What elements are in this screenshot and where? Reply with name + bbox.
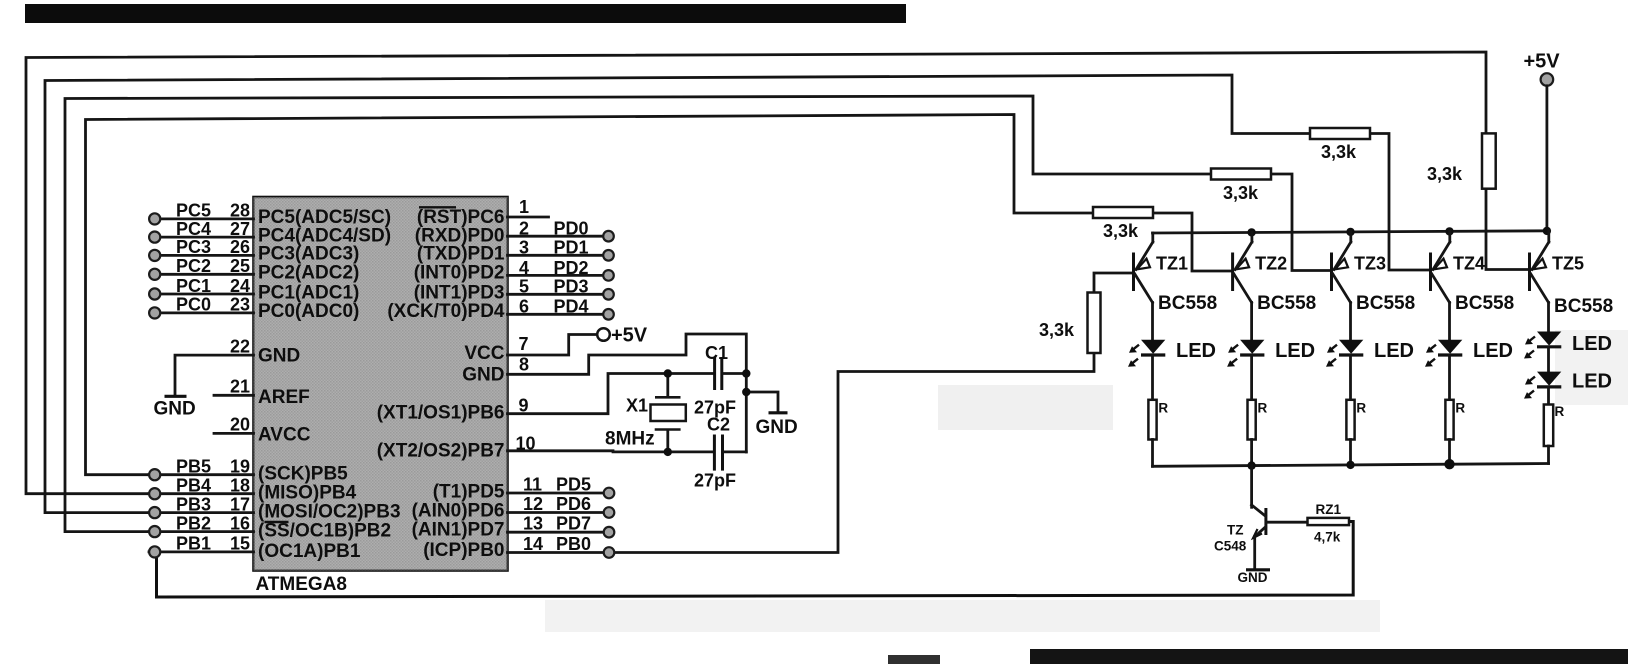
transistor TZ2 (PNP BC558)	[1233, 232, 1252, 339]
wire LED cathode to resistor	[1448, 356, 1451, 400]
svg-text:R: R	[1356, 401, 1366, 416]
pin 6 (PD4) wire + pad + labels	[508, 297, 614, 320]
transistor TZ1 (PNP BC558)	[1134, 233, 1153, 340]
resistor R (TZ4 column)	[1445, 400, 1453, 440]
transistor TZ (NPN C548)	[1252, 505, 1307, 569]
+5V terminal (VCC)	[597, 325, 648, 347]
LED (TZ5 column LED1)	[1524, 332, 1561, 359]
ground symbol at pin 22	[154, 396, 196, 419]
wire resistor to collector rail	[1250, 440, 1253, 466]
svg-text:22: 22	[230, 336, 250, 356]
svg-text:C548: C548	[1214, 539, 1247, 554]
svg-text:BC558: BC558	[1356, 293, 1415, 314]
LED (TZ3 column)	[1326, 340, 1363, 367]
svg-text:PD5: PD5	[556, 475, 591, 495]
ground symbol at TZ emitter	[1238, 570, 1271, 585]
pin 23 (PC0) wire + pad + labels	[149, 295, 253, 319]
pin 1 (PC6/RST) stub and number	[508, 197, 549, 217]
svg-text:R: R	[1258, 401, 1268, 416]
pin 9 (XT1) wire to crystal rail	[508, 374, 714, 416]
wire H1 resistor out -> TZ4 base	[1370, 134, 1431, 271]
wire net PB5 -> TZ2 base loop	[86, 115, 1094, 475]
svg-text:PB5: PB5	[176, 457, 211, 477]
svg-text:PC4: PC4	[176, 219, 211, 239]
wire LED cathode to resistor	[1250, 356, 1253, 400]
svg-text:PC1(ADC1): PC1(ADC1)	[258, 282, 359, 303]
svg-text:10: 10	[516, 434, 536, 454]
svg-text:PD7: PD7	[556, 514, 591, 534]
IC U1 ATMEGA8 body	[254, 197, 508, 571]
svg-text:21: 21	[230, 377, 250, 397]
pin 7 (VCC) wire to +5V	[508, 334, 598, 355]
svg-text:R: R	[1158, 401, 1168, 416]
svg-text:+5V: +5V	[611, 325, 648, 347]
svg-text:PD4: PD4	[554, 297, 589, 317]
svg-text:8: 8	[519, 355, 529, 375]
svg-text:(AIN1)PD7: (AIN1)PD7	[412, 520, 505, 541]
svg-text:28: 28	[230, 201, 250, 221]
svg-text:16: 16	[230, 513, 250, 533]
svg-text:R: R	[1555, 404, 1565, 419]
svg-text:LED: LED	[1473, 340, 1513, 362]
svg-text:(INT0)PD2: (INT0)PD2	[414, 263, 505, 284]
svg-text:(OC1A)PB1: (OC1A)PB1	[258, 541, 361, 562]
svg-text:20: 20	[230, 415, 250, 435]
overline on SS of (SS/OC1B)PB2	[265, 521, 289, 523]
+5V supply terminal top right	[1524, 51, 1561, 86]
wire LED cathode to resistor	[1151, 356, 1154, 400]
svg-text:3,3k: 3,3k	[1321, 142, 1357, 162]
svg-text:BC558: BC558	[1455, 293, 1514, 314]
resistor R (TZ1 column)	[1148, 400, 1156, 440]
scan artifact: dark bottom-right bar	[1030, 649, 1628, 664]
svg-text:27pF: 27pF	[694, 471, 736, 491]
resistor 3,3k (TZ4 base)	[1310, 128, 1370, 139]
wire net PB0 -> 3.3k -> TZ1 base	[615, 353, 1095, 553]
svg-text:(AIN0)PD6: (AIN0)PD6	[412, 501, 505, 522]
svg-text:GND: GND	[462, 365, 504, 386]
pin 21 (AREF) stub and number	[214, 377, 254, 397]
svg-text:TZ3: TZ3	[1354, 254, 1386, 274]
wire resistor to collector rail	[1151, 440, 1154, 467]
pin 26 (PC3) wire + pad + labels	[149, 237, 253, 261]
resistor RZ1 4,7k	[1308, 518, 1350, 525]
svg-text:(XT2/OS2)PB7: (XT2/OS2)PB7	[377, 441, 505, 462]
svg-text:TZ1: TZ1	[1156, 254, 1188, 274]
svg-text:9: 9	[519, 396, 529, 416]
wire resistor to collector rail	[1349, 440, 1352, 465]
IC internal pin labels right column	[377, 207, 505, 561]
svg-text:BC558: BC558	[1158, 293, 1217, 314]
emitter rail +5V	[1153, 231, 1549, 233]
resistor R (TZ2 column)	[1248, 400, 1256, 440]
pin 24 (PC1) wire + pad + labels	[149, 276, 253, 300]
pin 20 (AVCC) stub and number	[214, 415, 254, 435]
scan artifact: small dark mark bottom centre	[888, 655, 940, 664]
svg-text:PD3: PD3	[554, 277, 589, 297]
wire rail down to TZ collector	[1250, 466, 1253, 508]
svg-text:PD0: PD0	[554, 219, 589, 239]
svg-text:TZ2: TZ2	[1255, 254, 1287, 274]
resistor 3,3k (TZ2 base)	[1093, 207, 1153, 218]
pin 28 (PC5) wire + pad + labels	[149, 201, 253, 225]
svg-text:PB0: PB0	[556, 534, 591, 554]
svg-text:PD2: PD2	[554, 258, 589, 278]
svg-text:1: 1	[519, 197, 529, 217]
svg-text:(INT1)PD3: (INT1)PD3	[414, 282, 505, 303]
svg-text:RZ1: RZ1	[1316, 502, 1342, 517]
wire net PB3 -> TZ4 base loop	[45, 75, 1310, 513]
wire net PB4 -> TZ5 base (outer loop)	[26, 52, 1486, 494]
scan artifact: dark top edge bar	[25, 4, 906, 23]
svg-text:TZ5: TZ5	[1552, 254, 1584, 274]
ground symbol near crystal	[746, 392, 797, 438]
LED (TZ4 column)	[1425, 340, 1462, 367]
svg-text:+5V: +5V	[1524, 51, 1561, 73]
capacitor C1	[715, 357, 747, 390]
wire resistor to collector rail	[1547, 446, 1550, 464]
svg-text:PB3: PB3	[176, 494, 211, 514]
svg-text:GND: GND	[258, 346, 300, 367]
transistor TZ5 (PNP BC558)	[1530, 231, 1549, 332]
wire V-left resistor top -> TZ1 base	[1094, 273, 1134, 293]
svg-text:BC558: BC558	[1554, 296, 1613, 317]
pin 10 (XT2) wire, bottom crystal rail	[508, 434, 714, 454]
svg-text:PC2(ADC2): PC2(ADC2)	[258, 263, 359, 284]
pin 14 (PB0) wire + pad + labels	[508, 534, 615, 558]
svg-text:12: 12	[523, 494, 543, 514]
ground node wire right of C1/C2	[745, 374, 748, 453]
svg-text:(XT1/OS1)PB6: (XT1/OS1)PB6	[377, 403, 505, 424]
resistor 3,3k (TZ5 base, vertical)	[1482, 133, 1496, 188]
pin 17 (PB3) wire + pad + labels	[149, 494, 254, 518]
junction bottom rail TZ3	[1346, 461, 1354, 469]
svg-text:C2: C2	[707, 415, 730, 435]
junction emitter rail	[1247, 228, 1255, 236]
LED (TZ1 column)	[1128, 340, 1165, 367]
svg-text:PB2: PB2	[176, 513, 211, 533]
svg-text:LED: LED	[1572, 333, 1612, 355]
pin 2 (PD0) wire + pad + labels	[508, 219, 614, 242]
pin 15 (PB1) wire + pad + labels	[149, 534, 254, 558]
pin 25 (PC2) wire + pad + labels	[149, 256, 253, 280]
collector bottom rail	[1153, 464, 1549, 467]
svg-text:PD6: PD6	[556, 494, 591, 514]
svg-text:(MOSI/OC2)PB3: (MOSI/OC2)PB3	[258, 502, 401, 523]
svg-text:23: 23	[230, 295, 250, 315]
capacitor C2	[714, 435, 746, 471]
pin 13 (PD7) wire + pad + labels	[508, 514, 615, 538]
wire LED2 cathode to resistor	[1547, 387, 1550, 405]
svg-text:TZ: TZ	[1227, 523, 1244, 538]
svg-text:(ICP)PB0: (ICP)PB0	[423, 540, 504, 561]
svg-text:4: 4	[519, 258, 529, 278]
svg-text:(XCK/T0)PD4: (XCK/T0)PD4	[387, 301, 505, 322]
svg-text:TZ4: TZ4	[1453, 254, 1485, 274]
svg-text:(SCK)PB5: (SCK)PB5	[258, 464, 348, 485]
wire resistor to collector rail	[1448, 440, 1451, 465]
wire net PB1 bottom loop -> RZ1	[157, 522, 1354, 598]
wire LED cathode to resistor	[1349, 356, 1352, 400]
svg-text:BC558: BC558	[1257, 293, 1316, 314]
junction emitter rail	[1445, 227, 1453, 235]
svg-text:17: 17	[230, 494, 250, 514]
svg-text:PC1: PC1	[176, 276, 211, 296]
junction emitter rail	[1346, 228, 1354, 236]
svg-text:3: 3	[519, 238, 529, 258]
svg-text:(T1)PD5: (T1)PD5	[433, 482, 505, 503]
transistor TZ4 (PNP BC558)	[1431, 231, 1450, 339]
svg-text:LED: LED	[1176, 340, 1216, 362]
wire H3 resistor out -> TZ2 base	[1153, 213, 1233, 271]
svg-text:C1: C1	[705, 343, 728, 363]
pin 8 (GND) wire to ground node	[508, 334, 747, 375]
transistor TZ3 (PNP BC558)	[1332, 232, 1351, 340]
svg-text:18: 18	[230, 476, 250, 496]
svg-text:PB4: PB4	[176, 476, 211, 496]
svg-text:3,3k: 3,3k	[1103, 221, 1139, 241]
svg-text:AREF: AREF	[258, 387, 310, 408]
junction GND branch	[742, 388, 750, 396]
svg-text:7: 7	[519, 334, 529, 354]
wire H2 resistor out -> TZ3 base	[1271, 174, 1332, 271]
LED (TZ2 column)	[1227, 340, 1264, 367]
svg-text:PC2: PC2	[176, 256, 211, 276]
svg-text:19: 19	[230, 457, 250, 477]
svg-text:27: 27	[230, 219, 250, 239]
wire V-right resistor out -> TZ5 base	[1486, 189, 1530, 270]
junction bottom rail TZ4	[1444, 459, 1454, 469]
svg-text:ATMEGA8: ATMEGA8	[256, 574, 347, 595]
svg-text:(TXD)PD1: (TXD)PD1	[417, 244, 505, 265]
svg-text:PC5: PC5	[176, 201, 211, 221]
svg-text:14: 14	[523, 534, 543, 554]
svg-text:24: 24	[230, 276, 250, 296]
svg-text:VCC: VCC	[464, 343, 504, 364]
svg-text:8MHz: 8MHz	[605, 429, 655, 450]
svg-text:PC0: PC0	[176, 295, 211, 315]
wire net PB2 -> TZ3 base loop	[65, 96, 1211, 532]
svg-text:25: 25	[230, 256, 250, 276]
pin 3 (PD1) wire + pad + labels	[508, 238, 614, 261]
svg-text:(MISO)PB4: (MISO)PB4	[258, 483, 357, 504]
svg-text:(SS/OC1B)PB2: (SS/OC1B)PB2	[258, 521, 391, 542]
svg-text:PC3(ADC3): PC3(ADC3)	[258, 244, 359, 265]
wire +5V down to emitter rail	[1546, 86, 1549, 231]
svg-text:4,7k: 4,7k	[1314, 530, 1341, 545]
wire between stacked LEDs	[1547, 347, 1550, 372]
svg-text:GND: GND	[756, 417, 798, 438]
svg-text:GND: GND	[1238, 570, 1268, 585]
svg-text:PD1: PD1	[554, 238, 589, 258]
svg-text:6: 6	[519, 297, 529, 317]
IC internal pin labels left column	[258, 207, 401, 562]
junction crystal bottom	[664, 448, 672, 456]
overline on RST of (RST)PC6	[419, 206, 456, 208]
LED (TZ5 column LED2)	[1524, 372, 1561, 399]
svg-text:13: 13	[523, 514, 543, 534]
svg-text:3,3k: 3,3k	[1427, 164, 1463, 184]
pin 4 (PD2) wire + pad + labels	[508, 258, 614, 281]
svg-text:5: 5	[519, 277, 529, 297]
scan artifact: faint gray patches	[545, 330, 1628, 632]
svg-text:PC3: PC3	[176, 237, 211, 257]
pin 27 (PC4) wire + pad + labels	[149, 219, 253, 243]
svg-text:X1: X1	[626, 396, 648, 416]
svg-text:GND: GND	[154, 399, 196, 420]
junction emitter rail	[1543, 227, 1551, 235]
svg-text:LED: LED	[1572, 371, 1612, 393]
resistor R (TZ3 column)	[1346, 400, 1354, 440]
svg-text:15: 15	[230, 534, 250, 554]
pin 16 (PB2) wire + pad + labels	[149, 513, 254, 537]
resistor R (TZ5 column)	[1544, 405, 1553, 447]
svg-text:11: 11	[523, 475, 542, 495]
pin 5 (PD3) wire + pad + labels	[508, 277, 614, 300]
svg-text:AVCC: AVCC	[258, 425, 311, 446]
pin 18 (PB4) wire + pad + labels	[149, 476, 254, 500]
crystal X1 8MHz	[651, 374, 686, 452]
svg-text:LED: LED	[1275, 340, 1315, 362]
svg-text:3,3k: 3,3k	[1039, 320, 1075, 340]
junction bottom rail TZ2	[1247, 461, 1255, 469]
svg-text:3,3k: 3,3k	[1223, 183, 1259, 203]
pin 11 (PD5) wire + pad + labels	[508, 475, 615, 499]
pin 19 (PB5) wire + pad + labels	[149, 457, 254, 481]
resistor 3,3k (TZ3 base)	[1211, 169, 1271, 180]
svg-text:2: 2	[519, 219, 529, 239]
svg-text:26: 26	[230, 237, 250, 257]
pin 22 (GND) wire and number	[175, 336, 254, 395]
svg-text:R: R	[1455, 401, 1465, 416]
junction C1 right / GND node	[742, 369, 750, 377]
svg-text:LED: LED	[1374, 340, 1414, 362]
svg-text:PC0(ADC0): PC0(ADC0)	[258, 301, 359, 322]
resistor 3,3k (TZ1 base, vertical)	[1088, 293, 1101, 354]
pin 12 (PD6) wire + pad + labels	[508, 494, 615, 518]
svg-text:PB1: PB1	[176, 534, 211, 554]
junction crystal top	[664, 369, 672, 377]
